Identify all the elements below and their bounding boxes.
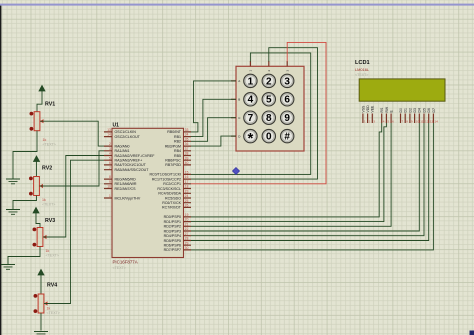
svg-text:RB0/INT: RB0/INT	[167, 130, 182, 134]
svg-text:33: 33	[185, 128, 189, 132]
wire RV1 top terminal	[37, 91, 42, 112]
svg-text:15: 15	[185, 171, 189, 175]
keypad button 4	[244, 93, 257, 106]
wire LCD D7 to U1 RD7	[191, 123, 433, 250]
svg-text:6: 6	[392, 119, 394, 123]
svg-text:40: 40	[185, 161, 189, 165]
svg-text:RA4/T0CKI/C1OUT: RA4/T0CKI/C1OUT	[115, 163, 147, 167]
wire keypad column 3 to U1 RC2 (red net)	[191, 42, 326, 183]
svg-text:RB5: RB5	[174, 154, 181, 158]
svg-text:4: 4	[383, 119, 385, 123]
wire RV4 bottom to ground	[40, 313, 42, 331]
keypad button 2	[262, 74, 275, 87]
RV2 wiper arrow	[39, 184, 43, 188]
svg-text:21: 21	[185, 222, 189, 226]
keypad button 9	[281, 111, 294, 124]
wire LCD E to U1 RD2	[191, 123, 391, 226]
RV3 terminal junction dots	[33, 228, 37, 232]
svg-text:RE1/AN6/WR: RE1/AN6/WR	[115, 182, 137, 186]
keypad button 1	[244, 74, 257, 87]
svg-text:1: 1	[248, 76, 254, 87]
power symbol (VCC arrow) for RV2	[34, 156, 40, 162]
svg-text:*: *	[247, 130, 253, 147]
svg-text:RA5/AN4/SS/C2OUT: RA5/AN4/SS/C2OUT	[115, 168, 150, 172]
wire RV3 top terminal	[36, 213, 40, 229]
svg-text:RD2/PSP2: RD2/PSP2	[164, 225, 181, 229]
svg-text:3: 3	[373, 119, 375, 123]
svg-text:9: 9	[284, 113, 290, 124]
sheet corner mark bottom-right	[470, 331, 474, 335]
RV1 wiper arrow	[40, 119, 44, 123]
svg-text:2: 2	[266, 76, 272, 87]
wire RV4 wiper to U1 RA3	[44, 160, 104, 303]
wire keypad row C to U1 RB2	[191, 118, 236, 142]
potentiometer RV3 body	[37, 228, 43, 247]
wire RV2 top terminal	[36, 161, 38, 177]
svg-text:RS: RS	[380, 107, 384, 112]
ground for RV3	[1, 265, 15, 270]
svg-text:RC6/TX/CK: RC6/TX/CK	[162, 201, 181, 205]
svg-text:0: 0	[266, 132, 272, 143]
microcontroller U1 PIC16F877A body	[112, 128, 184, 257]
keypad left row pin stubs	[231, 81, 236, 136]
wire LCD RW to U1 RD1	[191, 123, 386, 222]
svg-text:28: 28	[185, 237, 189, 241]
wire RV2 bottom to ground	[13, 196, 37, 210]
svg-text:RC7/RX/DT: RC7/RX/DT	[162, 206, 182, 210]
svg-text:1k: 1k	[43, 138, 47, 142]
svg-text:7: 7	[402, 119, 404, 123]
U1 left side pin stubs	[104, 132, 112, 198]
svg-text:34: 34	[185, 133, 189, 137]
svg-text:7: 7	[248, 113, 254, 124]
wire RV1 bottom to ground	[13, 131, 37, 179]
svg-text:RB6/PGC: RB6/PGC	[165, 159, 181, 163]
svg-text:U1: U1	[113, 122, 120, 128]
black sheet border left edge	[0, 6, 1, 335]
keypad button 7	[244, 111, 257, 124]
svg-text:12: 12	[425, 119, 429, 123]
svg-text:RC1/T1OSI/CCP2: RC1/T1OSI/CCP2	[152, 177, 181, 181]
svg-text:MCLR/Vpp/THV: MCLR/Vpp/THV	[115, 196, 141, 200]
svg-text:1k: 1k	[47, 307, 51, 311]
svg-text:RB7/PGD: RB7/PGD	[165, 163, 181, 167]
keypad button 8	[262, 111, 275, 124]
svg-text:OSC1/CLKIN: OSC1/CLKIN	[115, 130, 137, 134]
svg-text:8: 8	[266, 113, 272, 124]
wire keypad row D to U1 RB3	[191, 136, 236, 146]
U1 right side pin stubs	[184, 132, 192, 250]
power symbol (VCC arrow) for RV4	[38, 270, 44, 276]
svg-text:6: 6	[284, 95, 290, 106]
wire LCD D6 to U1 RD5	[191, 123, 429, 241]
potentiometer RV2 body	[34, 177, 40, 196]
wire keypad column 1 to U1 RC0	[191, 53, 311, 174]
svg-text:RV4: RV4	[47, 283, 57, 289]
svg-text:5: 5	[387, 119, 389, 123]
wire LCD D5 to U1 RD4	[191, 123, 424, 236]
svg-text:29: 29	[185, 241, 189, 245]
svg-text:RV3: RV3	[45, 218, 55, 224]
svg-text:10: 10	[107, 185, 111, 189]
svg-text:RE2/AN7/CS: RE2/AN7/CS	[115, 187, 137, 191]
svg-text:RD1/PSP1: RD1/PSP1	[164, 220, 181, 224]
keypad top column pin stubs	[250, 61, 287, 66]
svg-text:RD4/PSP4: RD4/PSP4	[164, 234, 181, 238]
svg-text:RA0/AN0: RA0/AN0	[115, 144, 130, 148]
ground for RV1	[6, 179, 20, 184]
svg-text:D0: D0	[399, 108, 403, 112]
svg-text:D3: D3	[413, 108, 417, 112]
wire RV1 wiper to U1 RA0	[40, 121, 104, 146]
svg-text:<TEXT>: <TEXT>	[355, 73, 368, 77]
svg-text:27: 27	[185, 232, 189, 236]
svg-text:7: 7	[109, 166, 111, 170]
svg-text:22: 22	[185, 227, 189, 231]
svg-text:RA3/AN3/VREF+: RA3/AN3/VREF+	[115, 159, 143, 163]
svg-text:13: 13	[430, 119, 434, 123]
svg-text:RA2/AN2/VREF-/CVREF: RA2/AN2/VREF-/CVREF	[115, 154, 156, 158]
svg-text:<TEXT>: <TEXT>	[43, 142, 56, 146]
svg-text:18: 18	[185, 185, 189, 189]
svg-text:VDD: VDD	[366, 105, 370, 113]
svg-text:RD7/PSP7: RD7/PSP7	[164, 248, 181, 252]
svg-text:RC2/CCP1: RC2/CCP1	[163, 182, 181, 186]
svg-text:RE0/AN5/RD: RE0/AN5/RD	[115, 177, 137, 181]
svg-text:A: A	[238, 79, 240, 83]
svg-text:13: 13	[107, 128, 111, 132]
keypad KEYPAD-SMALLCALC body	[236, 66, 304, 151]
svg-text:9: 9	[411, 119, 413, 123]
svg-text:OSC2/CLKOUT: OSC2/CLKOUT	[115, 135, 141, 139]
svg-text:36: 36	[185, 142, 189, 146]
wire LCD D4 to U1 RD3	[191, 123, 419, 231]
wire RV2 wiper to U1 RA1	[40, 151, 105, 186]
LCD1 display screen	[359, 79, 445, 101]
svg-text:VSS: VSS	[361, 105, 365, 113]
svg-text:10: 10	[416, 119, 420, 123]
svg-text:<TEXT>: <TEXT>	[42, 202, 55, 206]
svg-text:RA1/AN1: RA1/AN1	[115, 149, 130, 153]
svg-text:RB1: RB1	[174, 135, 181, 139]
svg-text:D5: D5	[422, 108, 426, 112]
LCD1 pin stubs	[363, 114, 434, 124]
svg-text:2: 2	[369, 119, 371, 123]
svg-text:3: 3	[109, 147, 111, 151]
svg-text:RD5/PSP5: RD5/PSP5	[164, 239, 181, 243]
RV4 terminal junction dots	[34, 294, 38, 298]
svg-text:RC5/SDO: RC5/SDO	[165, 196, 181, 200]
potentiometer RV1 body	[34, 112, 40, 131]
svg-text:39: 39	[185, 156, 189, 160]
svg-text:19: 19	[185, 213, 189, 217]
svg-text:RD6/PSP6: RD6/PSP6	[164, 244, 181, 248]
keypad button 0	[262, 129, 275, 142]
svg-text:D6: D6	[427, 108, 431, 112]
svg-text:RC0/T1OSO/T1CKI: RC0/T1OSO/T1CKI	[149, 173, 181, 177]
svg-text:35: 35	[185, 137, 189, 141]
svg-text:5: 5	[109, 156, 111, 160]
svg-text:LM016L: LM016L	[355, 67, 370, 72]
svg-text:RD3/PSP3: RD3/PSP3	[164, 229, 181, 233]
svg-text:#: #	[284, 132, 290, 143]
purple top rule of sheet	[0, 4, 474, 6]
svg-text:20: 20	[185, 218, 189, 222]
node marker (blue diamond) on RC0 net	[232, 167, 239, 174]
svg-text:14: 14	[434, 119, 438, 123]
svg-text:RW: RW	[385, 106, 389, 112]
wire keypad row A to U1 RB0	[191, 81, 236, 132]
keypad button 5	[262, 93, 275, 106]
svg-text:1: 1	[364, 119, 366, 123]
potentiometer RV4 body	[38, 294, 44, 313]
wire keypad row B to U1 RB1	[191, 99, 236, 136]
svg-text:26: 26	[185, 204, 189, 208]
svg-text:17: 17	[185, 180, 189, 184]
svg-text:RV1: RV1	[45, 102, 55, 108]
svg-text:<TEXT>: <TEXT>	[113, 266, 126, 270]
svg-text:8: 8	[406, 119, 408, 123]
svg-text:1k: 1k	[42, 198, 46, 202]
svg-text:38: 38	[185, 152, 189, 156]
ground for RV2	[6, 210, 20, 215]
svg-text:23: 23	[185, 189, 189, 193]
svg-text:14: 14	[107, 133, 111, 137]
svg-text:RB3/PGM: RB3/PGM	[165, 144, 181, 148]
power symbol (VCC arrow) for RV3	[33, 208, 39, 214]
svg-text:D7: D7	[432, 108, 436, 112]
svg-text:RD0/PSP0: RD0/PSP0	[164, 215, 181, 219]
wire keypad column 2 to U1 RC1	[191, 48, 318, 179]
svg-text:9: 9	[109, 180, 111, 184]
RV1 terminal junction dots	[30, 112, 34, 116]
keypad button 6	[281, 93, 294, 106]
svg-text:4: 4	[109, 152, 111, 156]
svg-text:11: 11	[420, 119, 423, 123]
RV2 terminal junction dots	[29, 177, 33, 181]
svg-text:4: 4	[248, 95, 254, 106]
svg-text:1k: 1k	[46, 249, 50, 253]
svg-text:LCD1: LCD1	[355, 60, 370, 66]
svg-text:RC4/SDI/SDA: RC4/SDI/SDA	[158, 192, 181, 196]
svg-text:<TEXT>: <TEXT>	[46, 253, 59, 257]
svg-text:1: 1	[109, 194, 111, 198]
keypad button *	[244, 129, 257, 147]
svg-text:5: 5	[266, 95, 272, 106]
svg-text:D1: D1	[404, 108, 408, 112]
keypad button #	[281, 129, 294, 142]
wire RV3 wiper to U1 RA2	[43, 156, 104, 238]
svg-text:6: 6	[109, 161, 111, 165]
RV4 wiper arrow	[44, 301, 48, 305]
svg-text:RC3/SCK/SCL: RC3/SCK/SCL	[157, 187, 181, 191]
keypad button 3	[281, 74, 294, 87]
wire RV4 top terminal	[40, 275, 42, 295]
wire RV3 bottom to ground	[8, 247, 40, 265]
svg-text:RV2: RV2	[42, 166, 52, 172]
svg-text:RB2: RB2	[174, 140, 181, 144]
power symbol (VCC arrow) for RV1	[39, 86, 45, 92]
svg-text:D4: D4	[418, 108, 422, 112]
wire LCD RS to U1 RD0	[191, 123, 382, 217]
svg-text:25: 25	[185, 199, 189, 203]
svg-text:30: 30	[185, 246, 189, 250]
svg-text:24: 24	[185, 194, 189, 198]
svg-text:RB4: RB4	[174, 149, 181, 153]
svg-text:8: 8	[109, 175, 111, 179]
svg-text:VEE: VEE	[371, 105, 375, 113]
RV3 wiper arrow	[43, 235, 47, 239]
svg-text:2: 2	[109, 142, 111, 146]
svg-text:D2: D2	[408, 108, 412, 112]
svg-text:37: 37	[185, 147, 189, 151]
svg-text:PIC16F877A: PIC16F877A	[113, 260, 138, 265]
svg-text:3: 3	[284, 76, 290, 87]
svg-text:B: B	[238, 98, 240, 102]
svg-text:16: 16	[185, 175, 189, 179]
svg-text:<TEXT>: <TEXT>	[47, 311, 60, 315]
ground for RV4 (clipped at sheet bottom)	[34, 332, 48, 334]
